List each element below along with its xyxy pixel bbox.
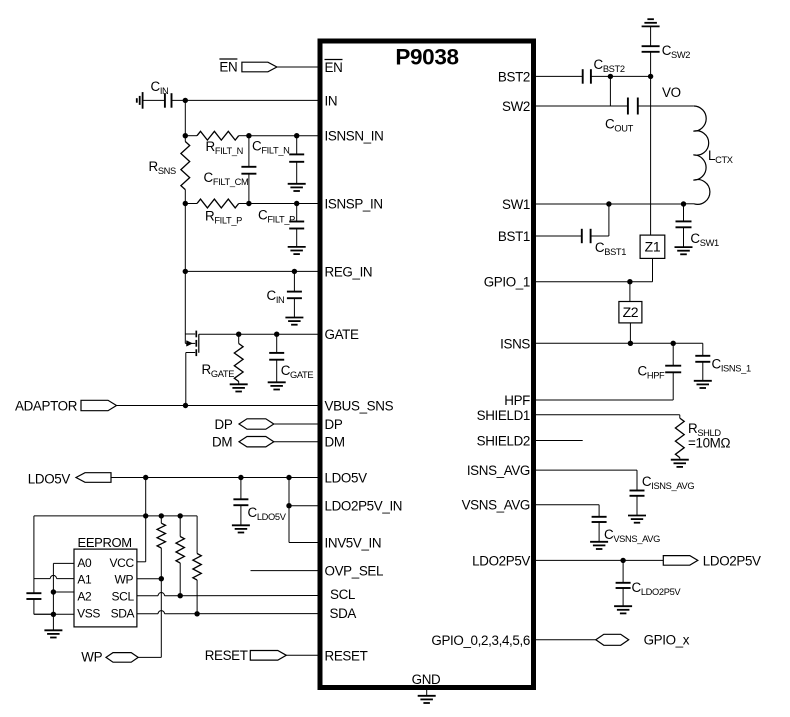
resistor R pullup SCL bbox=[179, 516, 181, 537]
node junction WP bbox=[159, 576, 164, 581]
wire junction down to Z2 bbox=[629, 282, 631, 302]
svg-text:CSW1: CSW1 bbox=[690, 231, 719, 248]
svg-text:RGATE: RGATE bbox=[202, 362, 235, 379]
wire gnd to C_IN bbox=[143, 99, 165, 101]
capacitor C_HPF bbox=[672, 343, 674, 365]
svg-text:CBST1: CBST1 bbox=[595, 240, 626, 257]
svg-text:OVP_SEL: OVP_SEL bbox=[325, 564, 384, 579]
svg-text:COUT: COUT bbox=[605, 117, 634, 134]
wire VSNS_AVG bbox=[534, 504, 600, 506]
ground under R_GATE bbox=[230, 383, 248, 385]
wire BST2 pin to C_BST2 bbox=[534, 75, 583, 77]
svg-text:CBST2: CBST2 bbox=[594, 57, 625, 74]
wire DP to chip bbox=[274, 423, 320, 425]
svg-text:CFILT_N: CFILT_N bbox=[252, 139, 290, 156]
node junction C_LDO5V bbox=[238, 475, 243, 480]
wire Q1 source down to VBUS junction bbox=[185, 353, 187, 406]
ground under C_LDO2P5V bbox=[614, 605, 632, 607]
node junction C_SW2 leg bbox=[648, 74, 653, 79]
svg-text:SHIELD1: SHIELD1 bbox=[477, 408, 530, 423]
WP connector bbox=[106, 653, 138, 663]
svg-text:SW1: SW1 bbox=[502, 197, 530, 212]
wire A0 bbox=[53, 562, 74, 564]
svg-text:SCL: SCL bbox=[330, 587, 355, 602]
wire C_HPF down to HPF pin bbox=[672, 372, 674, 400]
wire junction to junction bbox=[249, 135, 297, 137]
capacitor C_LDO2P5V bbox=[622, 560, 624, 582]
ground under C_LDO5V bbox=[232, 524, 250, 526]
svg-text:CFILT_CM: CFILT_CM bbox=[204, 170, 249, 187]
wire C_SW2 down to VO leg bbox=[650, 52, 652, 77]
svg-text:VSS: VSS bbox=[77, 607, 100, 621]
svg-text:CIN: CIN bbox=[151, 79, 169, 96]
wire ISNS pin bbox=[534, 342, 703, 344]
transistor Q1 gate electrode bbox=[198, 334, 200, 353]
resistor R_FILT_N bbox=[197, 131, 239, 140]
wire SDA from EEPROM to chip with hop bbox=[137, 613, 158, 615]
svg-text:RSNS: RSNS bbox=[149, 159, 177, 176]
svg-text:SHIELD2: SHIELD2 bbox=[477, 434, 530, 449]
node junction C_IN2 top bbox=[292, 269, 297, 274]
wire SW1 pin bbox=[534, 203, 684, 205]
ground under C_FILT_P bbox=[288, 246, 306, 248]
wire A2 bbox=[53, 591, 74, 593]
svg-text:VCC: VCC bbox=[110, 556, 135, 570]
wire RESET to chip bbox=[286, 654, 320, 656]
impedance Z1 box bbox=[640, 235, 665, 258]
capacitor C_GATE bbox=[276, 334, 278, 353]
capacitor C_IN (input) bbox=[164, 93, 166, 108]
RESET connector flag bbox=[250, 651, 286, 661]
wire SHIELD2 floating bbox=[534, 440, 583, 442]
wire to LDO2P5V_IN pin bbox=[289, 505, 320, 507]
wire VCC riser bbox=[145, 478, 147, 562]
wire SCL from EEPROM to chip with hop bbox=[137, 595, 158, 597]
resistor R_SNS bbox=[184, 136, 186, 142]
node junction on IN line bbox=[183, 98, 188, 103]
wire junction to ISNSN_IN pin bbox=[297, 135, 320, 137]
node junction C_LDO2P5V bbox=[620, 558, 625, 563]
ADAPTOR connector flag bbox=[81, 400, 117, 410]
svg-text:CISNS_AVG: CISNS_AVG bbox=[642, 474, 694, 491]
wire to INV5V_IN pin bbox=[289, 542, 320, 544]
wire ground to C_SW2 bbox=[650, 26, 652, 46]
resistor R_FILT_P bbox=[197, 199, 239, 208]
svg-text:LDO5V: LDO5V bbox=[28, 472, 71, 487]
svg-text:LCTX: LCTX bbox=[708, 148, 733, 165]
svg-text:CLDO5V: CLDO5V bbox=[248, 505, 287, 522]
svg-text:RFILT_P: RFILT_P bbox=[205, 209, 242, 226]
svg-text:VO: VO bbox=[662, 85, 681, 100]
node junction ISNSP left bbox=[183, 201, 188, 206]
capacitor C_BST1 bbox=[581, 229, 583, 243]
node junction C_FILT_CM top bbox=[246, 133, 251, 138]
wire WP pin bbox=[137, 578, 161, 580]
node junction C_FILT_N top bbox=[294, 133, 299, 138]
impedance Z2 box bbox=[619, 302, 642, 323]
ground under C_VSNS_AVG bbox=[590, 541, 608, 543]
DM connector bbox=[239, 437, 274, 447]
svg-text:EN: EN bbox=[325, 60, 343, 75]
transistor Q1 source stub bbox=[186, 352, 195, 354]
svg-text:P9038: P9038 bbox=[395, 45, 458, 70]
wire ADAPTOR to VBUS_SNS pin bbox=[117, 405, 321, 407]
resistor R pullup WP bbox=[160, 516, 162, 523]
wire A1 with hop bbox=[57, 578, 74, 580]
ground under C_SW1 bbox=[675, 246, 693, 248]
transistor Q1 body arrow stub bbox=[185, 342, 195, 344]
svg-text:CFILT_P: CFILT_P bbox=[258, 208, 295, 225]
ground under C_GATE bbox=[268, 381, 286, 383]
wire VSS bbox=[34, 613, 74, 615]
node junction R_WP top bbox=[159, 513, 164, 518]
capacitor C_OUT bbox=[627, 98, 629, 115]
wire VCC to riser bbox=[137, 561, 146, 563]
ground under C_FILT_N bbox=[288, 183, 306, 185]
node junction R_GATE top bbox=[236, 332, 241, 337]
capacitor C_ISNS_1 bbox=[702, 343, 704, 356]
svg-text:GPIO_x: GPIO_x bbox=[644, 633, 690, 648]
capacitor C_SW1 bbox=[683, 204, 685, 221]
svg-text:A1: A1 bbox=[77, 572, 92, 586]
DP connector bbox=[239, 419, 274, 429]
node junction pullup bus left bbox=[143, 513, 148, 518]
resistor R pullup SDA bbox=[196, 516, 198, 554]
svg-text:CGATE: CGATE bbox=[281, 363, 314, 380]
svg-text:DP: DP bbox=[325, 417, 343, 432]
svg-text:CIN: CIN bbox=[267, 288, 285, 305]
LDO5V connector flag bbox=[76, 473, 111, 483]
svg-text:CLDO2P5V: CLDO2P5V bbox=[632, 580, 682, 597]
svg-text:=10MΩ: =10MΩ bbox=[688, 436, 730, 451]
ground above C_SW2 bbox=[642, 25, 660, 27]
svg-text:BST2: BST2 bbox=[498, 69, 530, 84]
svg-text:RESET: RESET bbox=[205, 648, 248, 663]
svg-text:CVSNS_AVG: CVSNS_AVG bbox=[604, 527, 660, 544]
ground below chip GND pin bbox=[426, 690, 428, 696]
svg-text:HPF: HPF bbox=[504, 393, 530, 408]
capacitor C_FILT_N bbox=[296, 136, 298, 155]
svg-text:IN: IN bbox=[325, 93, 338, 108]
wire bus left leg down bbox=[33, 516, 35, 593]
wire BST1 pin to C_BST1 bbox=[534, 235, 582, 237]
svg-text:LDO2P5V: LDO2P5V bbox=[472, 553, 530, 568]
wire Z2 bottom to ISNS bbox=[629, 323, 631, 343]
wire C_BST1 up to SW1 bbox=[591, 235, 609, 237]
ground under R_SHLD bbox=[671, 459, 689, 461]
node junction SDA pullup bbox=[194, 611, 199, 616]
svg-text:LDO2P5V_IN: LDO2P5V_IN bbox=[325, 499, 403, 514]
wire LDO5V to chip bbox=[111, 477, 320, 479]
wire SHIELD1 to R_SHLD bbox=[534, 414, 680, 416]
node junction Z2 top bbox=[627, 279, 632, 284]
wire LDO2P5V pin bbox=[534, 559, 664, 561]
wire REG_IN junction down to MOSFET bbox=[184, 271, 186, 343]
svg-text:SDA: SDA bbox=[111, 607, 135, 621]
svg-text:REG_IN: REG_IN bbox=[325, 264, 373, 279]
svg-text:DM: DM bbox=[212, 435, 232, 450]
inductor L_CTX bbox=[693, 106, 709, 204]
wire IN junction down to ISNSN junction bbox=[184, 100, 186, 135]
wire GPIO pins bbox=[534, 639, 596, 641]
GPIO_x connector bbox=[596, 634, 629, 645]
wire C_IN to IN pin bbox=[172, 99, 321, 101]
wire R_FILT_N to junction bbox=[239, 135, 249, 137]
node junction ISNSN left bbox=[183, 133, 188, 138]
wire to R_FILT_N bbox=[185, 135, 197, 137]
svg-text:ISNS: ISNS bbox=[500, 336, 530, 351]
capacitor EEPROM bypass bbox=[26, 592, 41, 594]
capacitor C_FILT_CM bbox=[248, 136, 250, 167]
wire C_OUT to inductor bbox=[638, 105, 694, 107]
EN input connector flag bbox=[242, 62, 277, 72]
svg-text:GND: GND bbox=[412, 672, 441, 687]
svg-text:VBUS_SNS: VBUS_SNS bbox=[325, 399, 394, 414]
svg-text:DP: DP bbox=[215, 417, 233, 432]
node junction LDO2P5V_IN riser bbox=[286, 475, 291, 480]
svg-text:WP: WP bbox=[115, 572, 134, 586]
wire ISNSP junction down to REG_IN junction bbox=[184, 204, 186, 272]
capacitor C_ISNS_AVG bbox=[636, 470, 638, 490]
wire EN to chip bbox=[277, 66, 320, 68]
node junction R_SCL top bbox=[178, 513, 183, 518]
node junction VSS bbox=[51, 612, 56, 617]
ground under EEPROM address pins bbox=[44, 629, 62, 631]
capacitor C_BST2 bbox=[582, 69, 584, 84]
svg-text:A0: A0 bbox=[77, 556, 92, 570]
ground at C_IN input bbox=[142, 92, 144, 109]
resistor R_SHLD bbox=[679, 415, 681, 418]
wire OVP_SEL floating bbox=[251, 570, 321, 572]
node junction C_FILT_CM bottom bbox=[246, 201, 251, 206]
resistor R_GATE bbox=[238, 334, 240, 343]
node junction C_GATE top bbox=[274, 332, 279, 337]
svg-text:GPIO_1: GPIO_1 bbox=[484, 275, 530, 290]
ground under C_ISNS_AVG bbox=[628, 515, 646, 517]
wire WP junction down to WP connector w/ SCL SDA hops bbox=[160, 579, 162, 658]
wire VO leg down to Z1 bbox=[650, 76, 652, 235]
IC U1 P9038 body bbox=[320, 41, 534, 688]
EEPROM U2 body bbox=[74, 549, 137, 627]
svg-text:GATE: GATE bbox=[325, 327, 359, 342]
wire DM to chip bbox=[274, 441, 320, 443]
capacitor C_VSNS_AVG bbox=[598, 505, 600, 517]
node junction C_FILT_P top bbox=[294, 201, 299, 206]
transistor Q1 pass FET drain stub bbox=[185, 333, 195, 335]
svg-text:SW2: SW2 bbox=[502, 99, 530, 114]
capacitor C_LDO5V bbox=[240, 478, 242, 500]
node junction REG_IN left bbox=[183, 269, 188, 274]
ground under C_IN (REG_IN) bbox=[285, 317, 303, 319]
wire GPIO_1 pin bbox=[534, 281, 653, 283]
svg-text:A2: A2 bbox=[77, 590, 92, 604]
capacitor C_FILT_P bbox=[296, 204, 298, 222]
wire C_BST2 to C_SW2 leg bbox=[591, 75, 651, 77]
LDO2P5V connector flag bbox=[663, 556, 698, 566]
node junction C_SW1 top bbox=[681, 201, 686, 206]
node junction LDO2P5V_IN bbox=[286, 503, 291, 508]
svg-text:CISNS_1: CISNS_1 bbox=[712, 357, 751, 374]
node junction VBUS bbox=[183, 403, 188, 408]
wire gate to GATE pin bbox=[199, 333, 320, 335]
svg-text:WP: WP bbox=[81, 650, 102, 665]
svg-text:ISNSP_IN: ISNSP_IN bbox=[325, 197, 383, 212]
node junction C_HPF top bbox=[671, 341, 676, 346]
capacitor C_IN (REG_IN) bbox=[293, 271, 295, 291]
svg-text:LDO5V: LDO5V bbox=[325, 471, 368, 486]
ground under C_ISNS_1 bbox=[694, 380, 712, 382]
wire ISNS_AVG bbox=[534, 469, 638, 471]
node junction VCC riser bbox=[143, 475, 148, 480]
node junction A2 bbox=[51, 589, 56, 594]
wire inductor bottom to SW1 junction bbox=[684, 203, 695, 205]
capacitor C_SW2 bbox=[642, 45, 660, 47]
svg-text:BST1: BST1 bbox=[498, 229, 530, 244]
svg-text:LDO2P5V: LDO2P5V bbox=[703, 554, 761, 569]
transistor Q1 channel bars bbox=[195, 331, 197, 338]
node junction SCL pullup bbox=[178, 593, 183, 598]
wire C_FILT_N to ground bbox=[296, 162, 298, 184]
wire pullup bus bbox=[34, 515, 197, 517]
svg-text:RFILT_N: RFILT_N bbox=[206, 139, 244, 156]
wire riser LDO5V to INV5V_IN bbox=[288, 478, 290, 543]
svg-text:ADAPTOR: ADAPTOR bbox=[15, 399, 78, 414]
svg-text:ISNSN_IN: ISNSN_IN bbox=[325, 129, 384, 144]
svg-text:EN: EN bbox=[219, 60, 237, 75]
svg-text:RESET: RESET bbox=[325, 648, 368, 663]
svg-text:INV5V_IN: INV5V_IN bbox=[325, 536, 382, 551]
wire BST2 leg down to SW2 bbox=[609, 76, 611, 106]
svg-text:ISNS_AVG: ISNS_AVG bbox=[467, 463, 530, 478]
node junction BST2-SW2 leg bbox=[608, 74, 613, 79]
svg-text:DM: DM bbox=[325, 435, 345, 450]
svg-text:VSNS_AVG: VSNS_AVG bbox=[462, 498, 530, 513]
svg-text:Z1: Z1 bbox=[645, 239, 661, 255]
svg-text:GPIO_0,2,3,4,5,6: GPIO_0,2,3,4,5,6 bbox=[431, 633, 530, 648]
svg-text:SDA: SDA bbox=[330, 606, 357, 621]
svg-text:CSW2: CSW2 bbox=[662, 43, 691, 60]
svg-text:EEPROM: EEPROM bbox=[78, 535, 132, 550]
svg-text:SCL: SCL bbox=[112, 590, 135, 604]
wire Z1 bottom to GPIO_1 bbox=[652, 258, 654, 281]
svg-text:CHPF: CHPF bbox=[638, 364, 666, 381]
node junction BST1 leg bbox=[606, 201, 611, 206]
node junction Z2 bottom bbox=[628, 341, 633, 346]
wire SW2 pin to C_OUT bbox=[534, 105, 628, 107]
svg-text:Z2: Z2 bbox=[623, 304, 639, 320]
